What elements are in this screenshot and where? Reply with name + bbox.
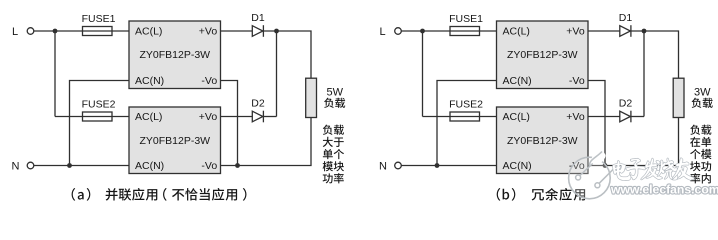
svg-text:AC(L): AC(L) <box>135 111 162 123</box>
fuse FUSE1 <box>449 13 483 36</box>
note text column: 负载在单个模块功率内 <box>690 125 711 184</box>
svg-text:ZY0FB12P-3W: ZY0FB12P-3W <box>139 135 210 147</box>
wire D1 cathode to load top <box>263 31 311 78</box>
label load wattage 3W <box>692 87 713 108</box>
fuse FUSE2 <box>449 99 483 122</box>
node: -Vo junction <box>235 163 240 168</box>
svg-text:www.elecfans.com: www.elecfans.com <box>610 182 718 196</box>
caption (b) 冗余应用 <box>497 188 585 201</box>
module U2a ZY0FB12P-3W <box>129 107 221 174</box>
svg-text:3W: 3W <box>694 87 711 99</box>
svg-text:FUSE1: FUSE1 <box>449 13 483 25</box>
node: -Vo junction <box>603 163 608 168</box>
wire N to AC(N) of U2b <box>401 165 496 167</box>
watermark: 电子发烧友 <box>613 158 694 180</box>
note text column: 负载大于单个模块功率 <box>323 125 344 184</box>
resistor load Ra <box>306 78 317 117</box>
svg-text:+Vo: +Vo <box>566 111 585 123</box>
wire -Vo of U1b down to -Vo rail <box>588 81 605 166</box>
svg-text:ZY0FB12P-3W: ZY0FB12P-3W <box>507 135 578 147</box>
svg-text:D2: D2 <box>619 98 633 110</box>
diode D2 <box>251 98 265 123</box>
svg-text:+Vo: +Vo <box>199 111 218 123</box>
terminal L (a) <box>12 26 34 38</box>
wire +Vo of U1b to D1 anode <box>588 30 620 32</box>
svg-text:D1: D1 <box>619 12 633 24</box>
wire D1 cathode to load top <box>631 31 679 78</box>
svg-text:D1: D1 <box>251 12 265 24</box>
wire L junction down to FUSE2 level <box>54 31 56 117</box>
svg-text:AC(N): AC(N) <box>503 160 532 172</box>
terminal N (b) <box>379 161 401 173</box>
node: D1/D2 output junction <box>274 29 279 34</box>
svg-text:N: N <box>379 161 387 173</box>
module U1b ZY0FB12P-3W <box>497 21 589 89</box>
wire +Vo of U1a to D1 anode <box>221 30 253 32</box>
svg-text:-Vo: -Vo <box>569 75 585 87</box>
wire D2 cathode to junction column <box>263 116 276 118</box>
wire L to AC(L) of U1b <box>401 30 496 32</box>
svg-text:-Vo: -Vo <box>201 75 217 87</box>
wire FUSE2 lead to AC(L) of U2b <box>423 116 497 118</box>
svg-text:+Vo: +Vo <box>199 26 218 38</box>
svg-text:ZY0FB12P-3W: ZY0FB12P-3W <box>507 49 578 61</box>
watermark: elecfans logo circle <box>569 149 614 199</box>
wire FUSE2 lead to AC(L) of U2a <box>55 116 129 118</box>
svg-text:AC(L): AC(L) <box>503 111 530 123</box>
svg-text:FUSE1: FUSE1 <box>82 13 116 25</box>
wire load bottom to -Vo of U2a <box>221 118 312 166</box>
caption (a) 并联应用（不恰当应用） <box>72 188 247 201</box>
diode D1 <box>251 12 265 37</box>
svg-text:AC(N): AC(N) <box>503 75 532 87</box>
wire L to AC(L) of U1a <box>34 30 129 32</box>
wire +Vo of U2a to D2 anode <box>221 116 253 118</box>
svg-text:AC(L): AC(L) <box>503 26 530 38</box>
svg-text:5W: 5W <box>327 87 344 99</box>
node: L junction <box>420 29 425 34</box>
module U2b ZY0FB12P-3W <box>497 107 589 174</box>
svg-text:+Vo: +Vo <box>566 26 585 38</box>
wire AC(N) of U1b down to N rail <box>437 81 496 166</box>
terminal N (a) <box>12 161 34 173</box>
label load wattage 5W <box>324 87 345 108</box>
wire load bottom to -Vo of U2b <box>588 118 679 166</box>
module U1a ZY0FB12P-3W <box>129 21 221 89</box>
fuse FUSE1 <box>82 13 116 36</box>
svg-text:L: L <box>380 26 386 38</box>
node: L junction <box>53 29 58 34</box>
wire N to AC(N) of U2a <box>34 165 129 167</box>
svg-text:-Vo: -Vo <box>201 160 217 172</box>
diode D1 <box>619 12 633 37</box>
node: D1/D2 output junction <box>642 29 647 34</box>
svg-text:L: L <box>12 26 18 38</box>
wire -Vo of U1a down to -Vo rail <box>221 81 238 166</box>
wire junction down to D2 cathode <box>643 31 645 117</box>
svg-text:AC(L): AC(L) <box>135 26 162 38</box>
svg-text:FUSE2: FUSE2 <box>449 99 483 111</box>
svg-text:FUSE2: FUSE2 <box>82 99 116 111</box>
svg-text:N: N <box>12 161 20 173</box>
fuse FUSE2 <box>82 99 116 122</box>
svg-text:AC(N): AC(N) <box>135 75 164 87</box>
svg-text:D2: D2 <box>251 98 265 110</box>
wire AC(N) of U1a down to N rail <box>70 81 129 166</box>
wire L junction down to FUSE2 level <box>422 31 424 117</box>
wire junction down to D2 cathode <box>276 31 278 117</box>
wire +Vo of U2b to D2 anode <box>588 116 620 118</box>
terminal L (b) <box>380 26 402 38</box>
node: N junction <box>67 163 72 168</box>
svg-text:ZY0FB12P-3W: ZY0FB12P-3W <box>139 49 210 61</box>
wire D2 cathode to junction column <box>631 116 644 118</box>
node: N junction <box>435 163 440 168</box>
resistor load Rb <box>673 78 684 117</box>
svg-text:AC(N): AC(N) <box>135 160 164 172</box>
diode D2 <box>619 98 633 123</box>
